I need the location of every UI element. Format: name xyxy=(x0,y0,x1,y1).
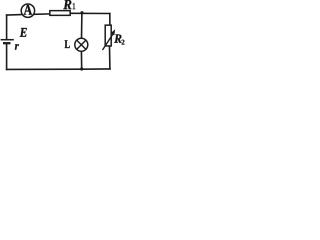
rheostat label R2 xyxy=(114,34,121,42)
node junction dot bottom xyxy=(80,67,83,70)
node junction dot top xyxy=(80,11,83,14)
R1 subscript 1 xyxy=(73,3,76,9)
resistor R1 box xyxy=(50,11,70,16)
ammeter A letter xyxy=(24,5,32,15)
wire ammeter to R1 xyxy=(35,13,50,15)
wire R1 to top-right corner xyxy=(71,12,110,14)
lamp L circle xyxy=(75,38,88,51)
lamp label L xyxy=(65,40,70,48)
rheostat R2 arrow xyxy=(103,29,116,50)
R2 subscript 2 xyxy=(122,40,125,45)
rheostat R2 box xyxy=(105,25,111,46)
wire left vertical upper (to battery) xyxy=(6,15,8,39)
resistor R1 label xyxy=(63,0,71,9)
ammeter A circle xyxy=(21,4,34,17)
wire top-left segment xyxy=(7,14,21,17)
lamp L cross xyxy=(77,40,86,49)
wire right vertical upper (corner to R2) xyxy=(109,14,111,25)
wire bottom xyxy=(7,68,110,71)
battery label E xyxy=(20,28,27,37)
battery E short plate xyxy=(3,42,11,44)
wire right vertical lower (R2 to bottom corner) xyxy=(109,47,111,69)
wire left vertical lower (battery to bottom) xyxy=(6,44,8,69)
battery label r xyxy=(15,44,19,49)
wire lamp branch upper xyxy=(81,13,83,39)
wire lamp branch lower xyxy=(80,51,82,69)
battery E long plate xyxy=(1,39,14,41)
